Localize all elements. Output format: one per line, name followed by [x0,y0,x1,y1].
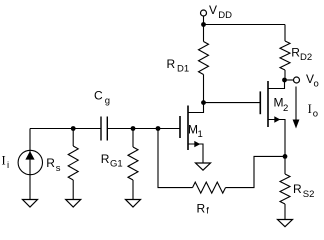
svg-text:R: R [291,46,300,60]
svg-text:R: R [46,156,55,170]
svg-text:G1: G1 [110,158,123,169]
svg-text:D2: D2 [300,52,312,63]
svg-text:M: M [274,96,284,110]
svg-text:S2: S2 [303,189,315,200]
svg-text:R: R [293,182,302,196]
svg-text:g: g [105,95,110,106]
svg-text:R: R [101,152,110,166]
svg-text:I: I [308,102,312,116]
svg-text:R: R [167,57,176,71]
svg-text:M: M [188,123,198,137]
svg-text:DD: DD [218,10,232,21]
svg-text:R: R [197,202,206,216]
svg-text:D1: D1 [177,63,189,74]
svg-text:1: 1 [198,129,203,140]
svg-text:o: o [313,108,318,119]
svg-text:f: f [206,206,209,217]
svg-text:i: i [7,160,9,171]
svg-text:2: 2 [283,103,288,114]
svg-text:V: V [209,3,217,17]
svg-text:s: s [56,163,61,174]
svg-text:I: I [2,154,6,168]
svg-text:o: o [314,78,319,89]
svg-text:C: C [94,89,103,103]
